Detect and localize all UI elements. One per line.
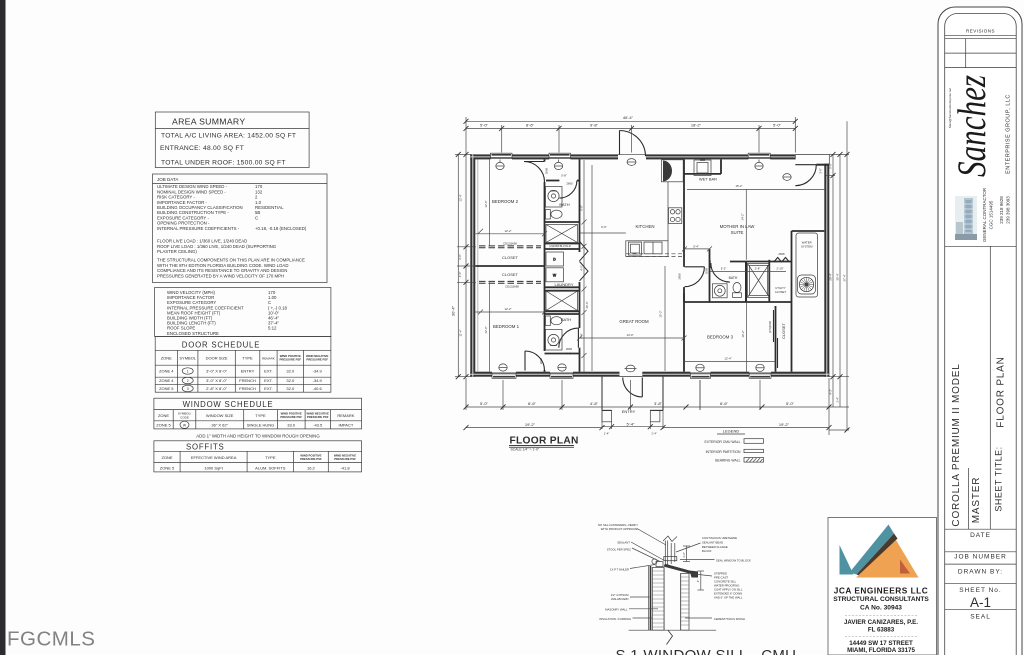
great room/bed3 wall V3 lower [683,287,685,372]
svg-text:TOTAL A/C LIVING AREA: 1452.00: TOTAL A/C LIVING AREA: 1452.00 SQ FT [161,133,296,140]
door symbols circled numbers [182,368,193,392]
great room dims [577,165,687,371]
svg-text:SOFFITS: SOFFITS [186,443,225,452]
svg-text:30'-4": 30'-4" [836,273,840,280]
left dim tier1 [455,154,471,376]
svg-text:19'-2": 19'-2" [525,422,536,427]
sill labels right [702,536,751,621]
svg-text:1'-4": 1'-4" [836,397,840,403]
bed3 top wall [684,301,792,303]
svg-text:8'-6": 8'-6" [528,401,537,406]
closet mid wall [475,265,544,267]
right dim tier1 [826,121,849,430]
svg-text:5'-0": 5'-0" [773,122,782,127]
svg-text:CODE: CODE [180,416,189,420]
wind criteria box [155,288,331,337]
suite shower [748,263,770,297]
laundry bifold door [580,242,589,281]
date section [945,528,1017,530]
svg-text:4'-8": 4'-8" [590,401,599,406]
door arc bedroom1 [525,351,545,371]
bed3 closet wall [775,306,777,372]
svg-text:ZONE 4: ZONE 4 [159,369,174,374]
svg-text:15'-2": 15'-2" [659,310,663,317]
svg-text:CLOSET: CLOSET [775,290,786,294]
door schedule grid [155,350,331,392]
wet bar walls [684,173,721,175]
door arc suite bath [711,263,730,282]
svg-text:BATH: BATH [729,276,738,280]
svg-text:INTERNAL PRESSURE COEFFICIENTS: INTERNAL PRESSURE COEFFICIENTS - [157,226,240,231]
svg-text:EFFECTIVE WIND AREA: EFFECTIVE WIND AREA [191,455,237,460]
svg-text:2668: 2668 [704,267,708,274]
svg-text:3'-0" X 8'-0": 3'-0" X 8'-0" [206,369,227,374]
svg-text:14'-2": 14'-2" [741,213,745,220]
svg-text:2868: 2868 [677,273,681,280]
bedroom3 dims [684,302,776,372]
svg-text:COROLLA PREMIUM II MODEL: COROLLA PREMIUM II MODEL [951,363,962,526]
suite dims [687,189,824,260]
gypsum board line [650,566,652,630]
bottom dim tier1 [466,378,829,435]
svg-text:STRUCTURAL CONSULTANTS: STRUCTURAL CONSULTANTS [833,596,929,603]
svg-text:JOB NUMBER: JOB NUMBER [954,554,1007,561]
window top 3 [748,153,770,158]
svg-text:5'-0": 5'-0" [828,163,832,169]
bath column dim line [582,160,587,372]
svg-text:SUITE: SUITE [731,230,744,235]
svg-text:FRENCH: FRENCH [239,378,256,383]
svg-text:FLOOR PLAN: FLOOR PLAN [510,435,579,446]
svg-text:ZONE: ZONE [161,356,172,361]
door schedule rows [159,369,322,392]
interior wall V2 bath column east [579,159,581,252]
svg-text:1: 1 [187,370,189,374]
water system nook [796,233,818,297]
window bottom 4 [749,373,771,378]
jca logo orange triangle [856,540,919,578]
bath2 vanity [546,330,563,351]
svg-text:BLOCK: BLOCK [702,549,712,553]
masonry wall left leaf [652,568,664,631]
bedroom2 dims [475,159,547,246]
sill labels left [598,523,638,621]
window code circles bottom [499,364,764,372]
svg-text:MASTER: MASTER [971,477,982,523]
job number section [945,551,1017,553]
precast sill slope [664,564,699,578]
svg-text:SCALE 1/4" = 1'-0": SCALE 1/4" = 1'-0" [511,447,540,451]
svg-text:ZONE 5: ZONE 5 [156,423,171,428]
linen closet X 1 [546,225,578,243]
bedroom1 dims [475,282,547,371]
exterior wall right [824,164,829,377]
svg-text:30'-0": 30'-0" [585,301,589,308]
svg-text:W: W [183,423,187,427]
svg-text:BEDROOM 2: BEDROOM 2 [492,199,519,204]
svg-text:Sanchez: Sanchez [949,75,994,177]
svg-text:TYPE: TYPE [255,413,266,418]
svg-text:ZONE 5: ZONE 5 [159,386,174,391]
svg-text:MOTHER IN LAW: MOTHER IN LAW [720,224,756,229]
kitchen dim [580,232,626,234]
water system fan [798,275,816,294]
door arc bedroom2 [524,162,545,183]
svg-text:MIAMI, FLORIDA 33175: MIAMI, FLORIDA 33175 [847,647,915,654]
window schedule box [154,398,362,429]
svg-text:28'-4": 28'-4" [829,273,833,280]
jca border [828,518,937,655]
suite bath toilet [733,283,742,298]
svg-text:EXT.: EXT. [264,378,272,383]
bath2 bottom wall [545,353,580,355]
floor plan title [509,435,579,451]
svg-text:1X P.T NAILER: 1X P.T NAILER [610,567,629,571]
svg-text:36" X 62": 36" X 62" [211,423,228,428]
svg-text:ADD 1" WIDTH AND HEIGHT TO WIN: ADD 1" WIDTH AND HEIGHT TO WINDOW ROUGH … [196,434,320,439]
door arc bath2 [559,328,579,348]
svg-text:FLOOR PLAN: FLOOR PLAN [996,356,1007,427]
svg-text:-43.5: -43.5 [313,423,323,428]
svg-text:BETWEEN FLANGE: BETWEEN FLANGE [702,545,728,549]
window code circles top [496,159,763,170]
svg-text:CA No. 30943: CA No. 30943 [860,605,902,612]
svg-text:A-1: A-1 [970,595,991,610]
suite door code circle [783,174,791,181]
svg-text:12'-2": 12'-2" [504,307,511,311]
soffits box [154,441,362,472]
svg-text:DATE: DATE [970,532,991,539]
svg-text:5'-2": 5'-2" [721,266,727,270]
svg-text:FRENCH: FRENCH [239,386,256,391]
kitchen east wall V3 upper [683,159,685,266]
outer border [938,7,1022,655]
svg-text:AREA SUMMARY: AREA SUMMARY [172,117,245,127]
svg-text:5'-4": 5'-4" [627,421,636,426]
left dim tier2 [457,154,476,376]
area summary box [155,112,309,168]
wall inner face line [477,159,479,371]
svg-text:2'-0": 2'-0" [458,254,462,260]
svg-text:AND 6" UP THE WALL: AND 6" UP THE WALL [714,595,743,599]
svg-text:2'-8": 2'-8" [755,266,761,270]
svg-text:2660: 2660 [566,347,573,351]
svg-text:SEALANT: SEALANT [617,540,630,544]
legend [704,429,763,463]
svg-text:239 218 9628: 239 218 9628 [999,196,1004,224]
svg-text:PRESSURE PSF: PRESSURE PSF [306,357,328,361]
soffits row [160,466,351,471]
svg-text:ALUM. SOFFITS: ALUM. SOFFITS [255,466,286,471]
jca logo teal small triangle [840,545,854,575]
section divider [945,245,1017,247]
seal section [945,608,1017,610]
door arc bath1 [559,181,577,199]
svg-text:CLOSET: CLOSET [502,255,519,260]
jca logo rust triangle [900,560,910,574]
svg-text:6'-0": 6'-0" [601,225,607,229]
svg-text:3'-8": 3'-8" [654,401,663,406]
bath1 vanity [546,187,563,208]
svg-text:EXT.: EXT. [264,369,272,374]
svg-text:LAUNDRY: LAUNDRY [554,282,573,287]
svg-text:1000 SqFt: 1000 SqFt [204,466,223,471]
svg-text:4'-3": 4'-3" [829,389,833,395]
svg-text:DOOR SIZE: DOOR SIZE [206,356,228,361]
bed3 closet door [774,310,778,368]
svg-text:-40.6: -40.6 [313,386,323,391]
svg-text:IMPACT: IMPACT [338,423,353,428]
svg-text:REMARK: REMARK [262,357,275,361]
svg-text:ENTERPRISE GROUP, LLC: ENTERPRISE GROUP, LLC [1006,94,1012,174]
svg-text:5'-0": 5'-0" [786,401,795,406]
svg-text:18'-2": 18'-2" [691,122,702,127]
svg-text:2'-10": 2'-10" [776,266,783,270]
svg-text:30'-4": 30'-4" [451,305,456,316]
closet/water wall [791,231,793,372]
window schedule row [156,423,354,428]
svg-text:14449 SW 17 STREET: 14449 SW 17 STREET [849,640,913,647]
utility closet wall [768,260,770,302]
svg-text:W: W [553,273,557,277]
svg-text:2: 2 [187,379,189,383]
window break top [663,536,677,542]
svg-text:SHEET No.: SHEET No. [959,587,1001,594]
svg-text:TYPE: TYPE [242,356,253,361]
svg-text:INTERIOR PARTITION: INTERIOR PARTITION [706,450,741,454]
door arc suite entry [795,165,816,186]
door arc kitchen-suite 2868 [685,267,705,287]
svg-text:16.2: 16.2 [307,466,316,471]
svg-text:2660: 2660 [566,181,573,185]
svg-text:CLOSET: CLOSET [781,322,786,339]
svg-text:3'-0" X 8'-0": 3'-0" X 8'-0" [206,378,227,383]
svg-text:MASONRY WALL: MASONRY WALL [605,608,628,612]
svg-text:15'-2": 15'-2" [735,184,742,188]
svg-text:Main@SanchezEnterprise.net: Main@SanchezEnterprise.net [948,88,952,128]
svg-text:CLOSET: CLOSET [502,272,519,277]
laundry appliances [546,252,564,282]
bath1 toilet [546,210,563,220]
svg-text:REMARK: REMARK [337,413,354,418]
svg-text:33.0: 33.0 [287,423,296,428]
closet bifold doors [479,246,541,283]
svg-text:10'-2": 10'-2" [741,330,745,337]
svg-text:-34.9: -34.9 [313,378,323,383]
svg-text:ZONE: ZONE [161,455,172,460]
sill leader lines [629,529,715,619]
cavity lines [663,568,665,631]
svg-text:ZONE: ZONE [158,413,169,418]
exterior wall left [470,154,475,376]
svg-text:JAVIER CANIZARES, P.E.: JAVIER CANIZARES, P.E. [844,619,918,626]
svg-text:4'-0": 4'-0" [579,265,583,271]
svg-text:BEDROOM 3: BEDROOM 3 [707,335,734,340]
svg-text:PRESSURE PSF: PRESSURE PSF [279,357,301,361]
bath2 toilet [546,316,563,326]
svg-text:1'-4": 1'-4" [604,431,610,435]
svg-text:ZONE 5: ZONE 5 [160,466,175,471]
top dim tier2 [466,125,795,153]
window bottom 2 [550,373,573,378]
suite bath top wall [710,261,711,263]
svg-text:DRAWN BY:: DRAWN BY: [958,569,1003,576]
entry vestibule [602,377,663,411]
svg-text:EXT.: EXT. [264,386,272,391]
svg-text:11'-4": 11'-4" [459,330,463,337]
interior wall V1 bedrooms/bath column [475,159,824,371]
suite bath sink [713,284,728,298]
svg-text:WET BAR: WET BAR [699,177,717,182]
scan edge bar [0,0,6,655]
svg-text:BEARING WALL: BEARING WALL [715,459,740,463]
svg-text:46'-4": 46'-4" [623,115,634,120]
svg-text:EXTERIOR CMU WALL: EXTERIOR CMU WALL [704,440,740,444]
svg-text:8'-6": 8'-6" [720,401,729,406]
svg-text:2668: 2668 [778,252,785,256]
svg-text:5'-0": 5'-0" [480,122,489,127]
top dim segment labels [480,122,782,127]
svg-text:LEGEND: LEGEND [723,429,740,434]
svg-text:6": 6" [696,580,700,583]
svg-text:C: C [255,215,258,220]
entry small dims [602,378,663,429]
svg-text:FL 63883: FL 63883 [868,626,895,633]
wall core lines [470,154,829,376]
svg-text:14'-0": 14'-0" [626,333,633,337]
svg-text:WALLBOARD: WALLBOARD [611,597,628,601]
svg-text:37'-4": 37'-4" [843,274,847,281]
entry porch columns [602,410,612,421]
svg-text:1'-2": 1'-2" [682,552,686,558]
svg-text:2668: 2668 [539,357,543,364]
svg-text:2'-8" X 8'-0": 2'-8" X 8'-0" [206,386,227,391]
counter dashed overhang [626,254,683,257]
svg-text:WINDOW SCHEDULE: WINDOW SCHEDULE [183,400,274,409]
kitchen fridge [662,160,684,182]
svg-text:BATH: BATH [559,202,569,207]
exterior wall top [470,154,829,376]
svg-text:8'-6": 8'-6" [526,122,535,127]
svg-text:GENERAL CONTRACTOR: GENERAL CONTRACTOR [982,187,987,242]
masonry wall right leaf [681,573,689,630]
svg-text:12'-0": 12'-0" [484,200,488,207]
job data box [153,174,328,283]
top dim tier1 [466,117,795,155]
svg-text:12'-4": 12'-4" [459,194,463,201]
jca logo dark sliver [857,534,898,577]
ground line [629,629,717,631]
svg-text:ENTRY: ENTRY [241,369,255,374]
door arc entry [623,378,643,398]
svg-text:ENTRY: ENTRY [622,409,636,414]
svg-text:-41.8: -41.8 [340,466,350,471]
bath1 bottom wall [545,221,580,223]
svg-text:(2)2068 BI-FOLD: (2)2068 BI-FOLD [549,244,570,248]
svg-text:CD(2)2668: CD(2)2668 [503,242,517,246]
svg-text:CONTINUOUS URETHENE: CONTINUOUS URETHENE [702,536,737,540]
svg-text:2'-0": 2'-0" [458,272,462,278]
svg-text:6'-8": 6'-8" [579,205,583,211]
svg-text:S.1 WINDOW SILL - CMU: S.1 WINDOW SILL - CMU [616,647,797,655]
svg-text:PRESSURE PSF: PRESSURE PSF [300,457,322,461]
kitchen counter south [626,241,668,257]
jca logo teal big triangle [850,525,895,575]
svg-text:5'-0": 5'-0" [480,401,489,406]
svg-text:32.0: 32.0 [286,378,295,383]
sill nailer block [656,562,663,567]
svg-text:PRESSURE PSF: PRESSURE PSF [334,457,356,461]
svg-text:ZONE 4: ZONE 4 [159,378,174,383]
svg-text:ENTRANCE: 48.00 SQ FT: ENTRANCE: 48.00 SQ FT [160,145,244,152]
svg-text:TYPE: TYPE [265,455,276,460]
svg-text:PLASTER CEILING): PLASTER CEILING) [157,249,197,254]
svg-text:9'-8": 9'-8" [590,122,599,127]
wet bar sink [694,160,711,176]
svg-text:FGCMLS: FGCMLS [7,628,95,651]
building photo logo [955,196,977,240]
svg-text:REVISIONS: REVISIONS [966,29,995,34]
svg-text:+0.18, -0.18 (ENCLOSED): +0.18, -0.18 (ENCLOSED) [255,226,307,231]
svg-text:CEMENTITIOUS FINISH: CEMENTITIOUS FINISH [714,617,745,621]
sheet no section [945,583,1017,585]
svg-text:TOTAL UNDER ROOF: 1500.00 SQ F: TOTAL UNDER ROOF: 1500.00 SQ FT [161,160,286,167]
sill dim arrows [683,546,690,562]
svg-text:SHEET TITLE:: SHEET TITLE: [994,446,1004,511]
svg-text:BATH: BATH [561,317,571,322]
svg-text:BEDROOM 1: BEDROOM 1 [493,324,520,329]
svg-text:JOB DATA: JOB DATA [157,177,178,182]
svg-text:PRESSURE PSF: PRESSURE PSF [280,415,302,419]
door threshold lines [618,155,646,377]
svg-text:PRESSURES GENERATED BY A WIND: PRESSURES GENERATED BY A WIND VELOCITY O… [157,273,284,278]
svg-text:4'-1": 4'-1" [566,352,572,356]
svg-text:12'-0": 12'-0" [484,326,488,333]
svg-text:INSULATION / FURRING: INSULATION / FURRING [599,617,631,621]
linen closet X 2 [546,291,578,311]
suite entry wall stub [816,164,829,166]
window top 2 [549,153,571,158]
svg-text:ENCLOSED STRUCTURE: ENCLOSED STRUCTURE [167,331,219,336]
svg-text:CD(2)2668: CD(2)2668 [505,285,519,289]
svg-text:(CS)2668: (CS)2668 [768,321,772,333]
svg-text:GREAT ROOM: GREAT ROOM [619,319,649,324]
svg-text:CGC 1514495: CGC 1514495 [989,200,994,229]
svg-text:3: 3 [187,387,189,391]
svg-text:12'-2": 12'-2" [504,229,511,233]
svg-text:239 398 3093: 239 398 3093 [1006,196,1011,224]
svg-text:SYSTEM: SYSTEM [801,245,813,249]
svg-text:DOOR SCHEDULE: DOOR SCHEDULE [182,341,260,350]
bottom dim tier2 [466,426,829,429]
exterior wall bottom [470,372,492,377]
door arc kitchen rear [620,131,646,157]
ground break [667,630,673,644]
svg-text:STOOL PER SPEC: STOOL PER SPEC [607,547,631,551]
svg-text:WINDOW SIZE: WINDOW SIZE [206,413,234,418]
svg-text:JCA ENGINEERS LLC: JCA ENGINEERS LLC [834,586,928,596]
job data rows [157,184,307,278]
svg-text:32.0: 32.0 [286,369,295,374]
window top 1 [491,153,513,158]
svg-text:PRESSURE PSF: PRESSURE PSF [307,415,329,419]
linen walls [545,243,580,245]
svg-text:5'-4": 5'-4" [693,244,699,248]
svg-text:SEAL WINDOW TO BLOCK: SEAL WINDOW TO BLOCK [716,558,751,562]
svg-text:SINGLE HUNG: SINGLE HUNG [247,423,275,428]
window bottom 1 [492,373,516,378]
svg-text:12'-4": 12'-4" [724,357,731,361]
